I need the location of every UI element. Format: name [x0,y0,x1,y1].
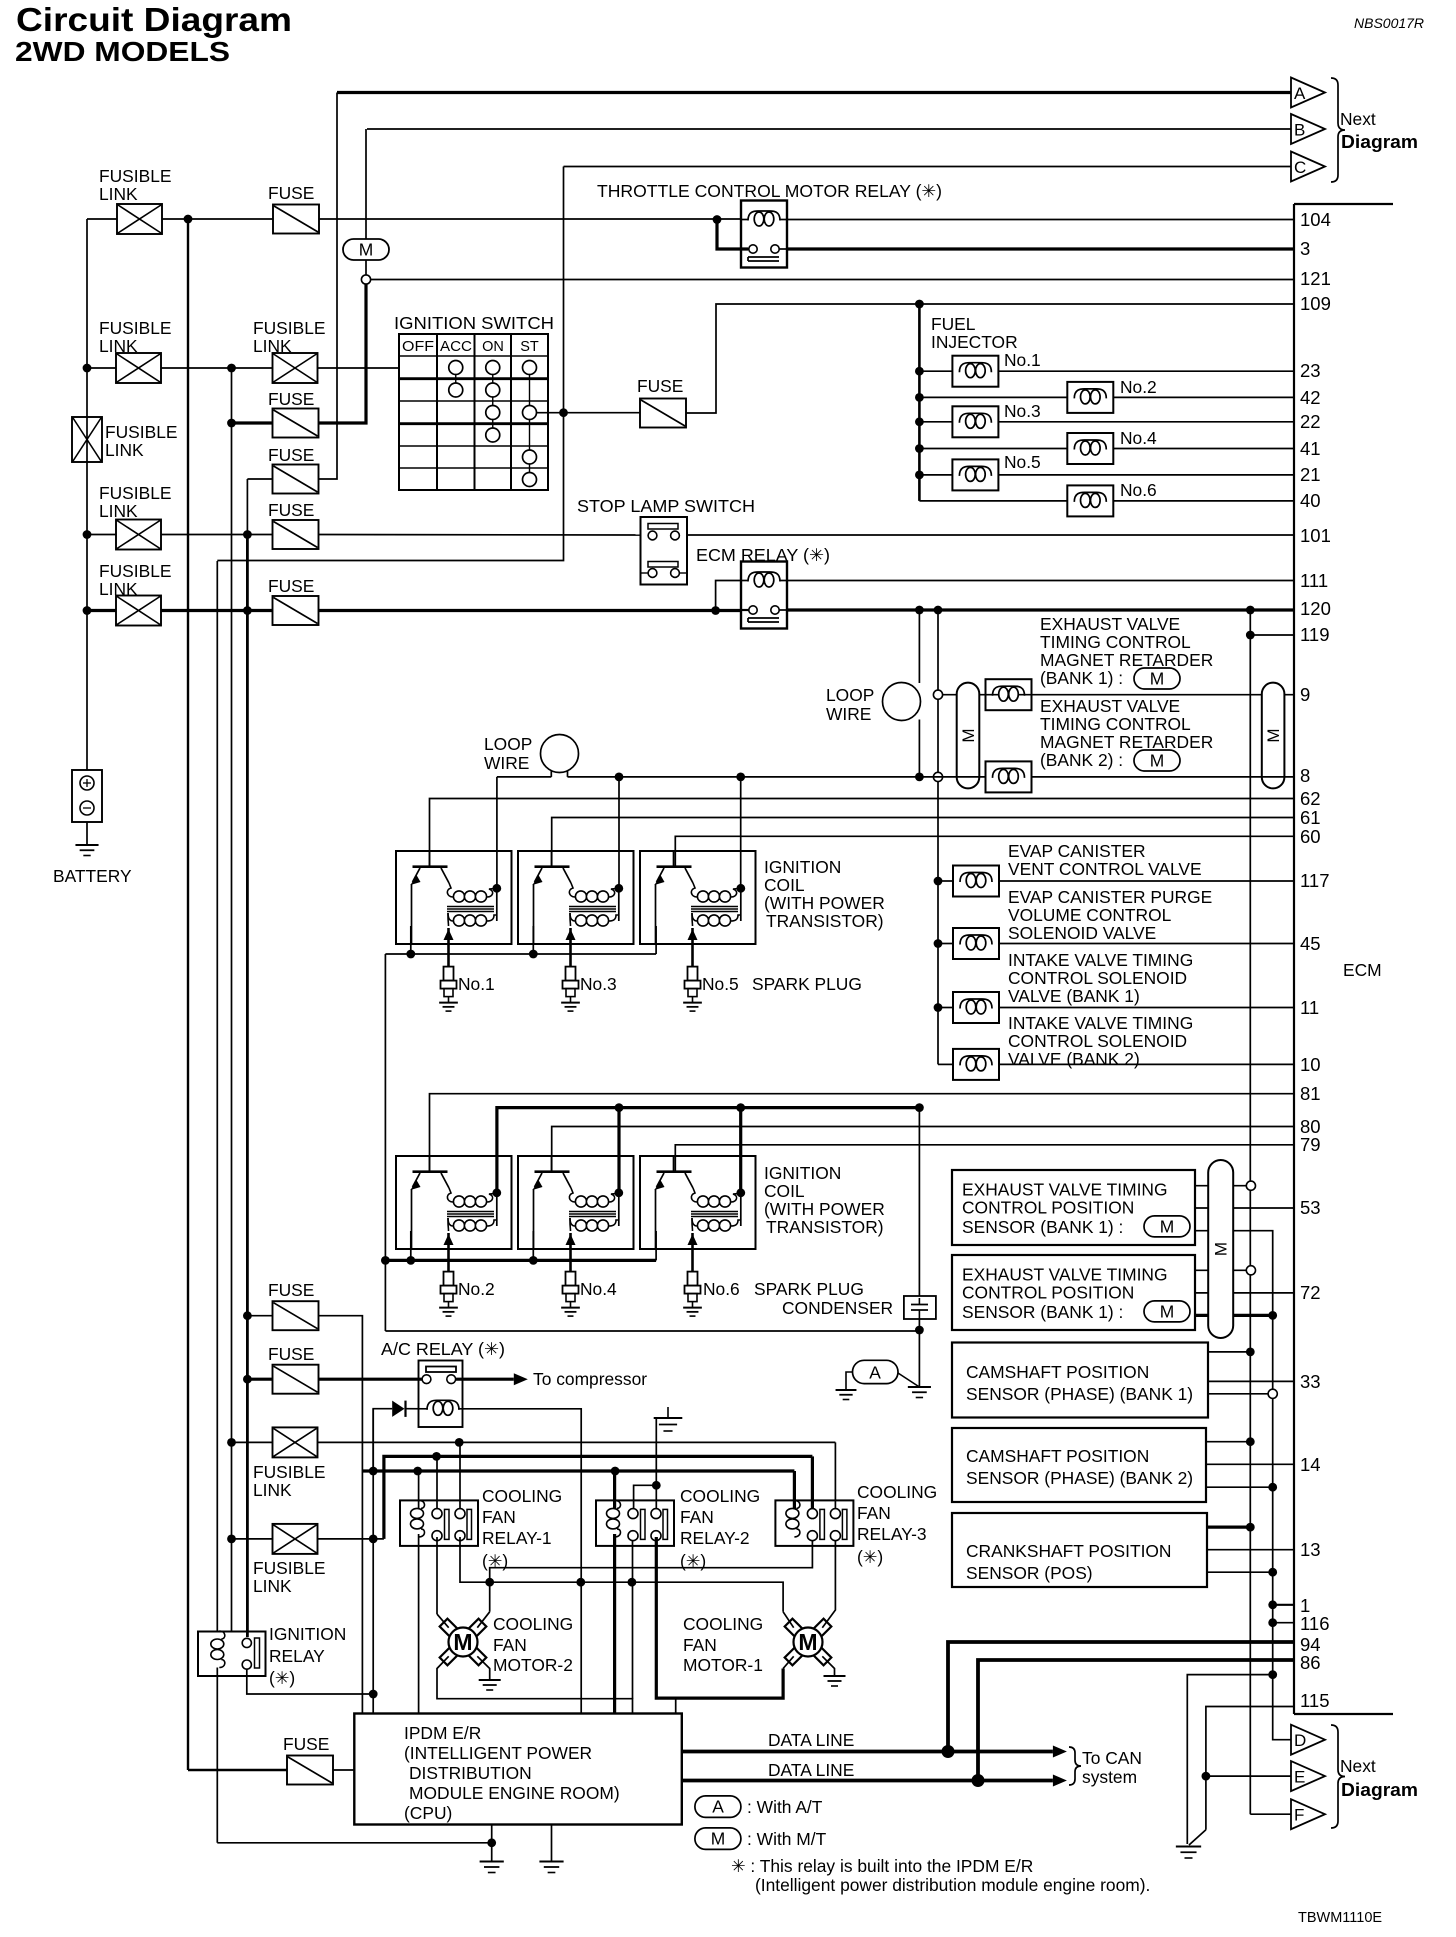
junction dot F6 feed [243,1311,252,1320]
svg-text:A/C RELAY (✳): A/C RELAY (✳) [381,1339,505,1359]
EVAP purge coil [953,928,999,959]
sensor1 connector circle [1246,1181,1255,1190]
wire line B to next diagram [367,128,1291,130]
sensor2 connector circle [1246,1266,1255,1275]
svg-text:LOOP: LOOP [484,734,532,754]
emitter return wire bank2 [385,1330,919,1332]
svg-text:FUSIBLE: FUSIBLE [99,483,171,503]
sensor2 stub 1 [1195,1269,1251,1271]
svg-text:111: 111 [1300,570,1328,591]
svg-text:No.3: No.3 [580,974,617,994]
emitter bus riser down [384,954,386,1331]
svg-text:TBWM1110E: TBWM1110E [1298,1910,1382,1926]
svg-text:EXHAUST VALVE: EXHAUST VALVE [1040,696,1180,716]
svg-text:FUSIBLE: FUSIBLE [253,1558,325,1578]
spark plug wires bank1 [447,928,450,967]
spark plug wires bank2 [447,1233,450,1272]
svg-text:To compressor: To compressor [533,1369,647,1389]
connector circle under motor [365,260,367,275]
svg-text:41: 41 [1300,438,1321,459]
svg-text:101: 101 [1300,525,1331,546]
svg-text:STOP LAMP SWITCH: STOP LAMP SWITCH [577,496,755,516]
wire ignition fuse to pin 109 riser [686,304,1294,413]
legend M/T oval [695,1828,741,1850]
svg-text:No.6: No.6 [1120,480,1157,500]
emitter verticals bank1 [410,926,412,954]
exhaust position sensor bank1 box [952,1170,1195,1245]
svg-text:(✳): (✳) [857,1547,883,1567]
fuse F2 [273,409,319,438]
svg-text:FUSE: FUSE [637,376,683,396]
relay3 left to motor2 row D [490,1541,813,1612]
junction dot ground branch [1268,1670,1277,1679]
relay2 contact step [634,1485,657,1509]
svg-text:EXHAUST VALVE: EXHAUST VALVE [1040,614,1180,634]
ignition switch contacts [449,361,463,375]
junction dot sensor2 return [1268,1311,1277,1320]
svg-text:INTAKE VALVE TIMING: INTAKE VALVE TIMING [1008,1013,1193,1033]
intake valve coil bank1 [953,992,999,1023]
emitter verticals bank2 [410,1231,412,1260]
battery feed vertical [86,219,88,770]
camshaft1 stub 3 [1208,1393,1273,1395]
wire x247 to F6 [247,1315,272,1317]
svg-text:F: F [1294,1806,1304,1825]
IPDM E/R box [354,1714,682,1825]
svg-text:No.6: No.6 [703,1279,740,1299]
svg-text:IGNITION SWITCH: IGNITION SWITCH [394,313,554,333]
wire pin 10 intake valve bank2 [938,1063,953,1065]
spark plug No.1 [444,967,454,981]
svg-text:11: 11 [1300,997,1319,1018]
svg-text:3: 3 [1300,238,1310,259]
wire pin 116 [1273,1622,1294,1624]
junction dots pin120 row [915,606,924,615]
svg-text:IGNITION: IGNITION [764,857,841,877]
svg-text:IPDM E/R: IPDM E/R [404,1723,481,1743]
data line 1 bold [682,1750,1053,1754]
svg-text:CONTROL POSITION: CONTROL POSITION [962,1198,1134,1218]
svg-text:2WD MODELS: 2WD MODELS [15,36,230,67]
wire contact to compressor [456,1378,514,1381]
svg-text:SPARK PLUG: SPARK PLUG [754,1279,864,1299]
exhaust position sensor bank2 box [952,1255,1195,1330]
wire pin 79 [675,1145,1294,1171]
svg-text:FAN: FAN [680,1507,714,1527]
svg-text:FUSE: FUSE [268,1280,314,1300]
svg-text:LINK: LINK [99,501,138,521]
svg-text:Next: Next [1340,1756,1376,1776]
svg-text:: With A/T: : With A/T [747,1797,823,1817]
svg-text:LINK: LINK [99,184,138,204]
relay2 coil feed bold [613,1471,616,1509]
svg-text:SOLENOID VALVE: SOLENOID VALVE [1008,923,1156,943]
fuel injector No.6 wire [919,500,1067,502]
loop wire on ECM relay feed [918,610,920,683]
junction dot battery FL2 [83,364,92,373]
svg-text:No.1: No.1 [458,974,495,994]
svg-text:No.4: No.4 [1120,428,1157,448]
junction dot emitter return [915,1326,924,1335]
wire pin 60 [675,836,1294,866]
svg-text:ON: ON [482,339,504,355]
svg-text:M: M [1150,669,1165,689]
svg-text:SENSOR (PHASE) (BANK 1): SENSOR (PHASE) (BANK 1) [966,1384,1193,1404]
motor1 ground [824,1675,846,1677]
svg-text:10: 10 [1300,1054,1321,1075]
vertical x373 to IPDM [372,1409,374,1714]
wire F4 to stop lamp switch [319,534,642,537]
wire ECM relay coil to pin 111 [787,580,1294,582]
svg-text:FUSIBLE: FUSIBLE [253,1462,325,1482]
fusible link FL2b [273,353,318,383]
cooling fan relay-3 [775,1500,853,1546]
svg-text:ST: ST [520,339,539,355]
svg-text:: With M/T: : With M/T [747,1829,827,1849]
junction dot ST column [559,408,568,417]
branch to ECM relay coil [716,581,741,611]
camshaft position sensor bank1 box [952,1343,1208,1418]
svg-text:BATTERY: BATTERY [53,866,132,886]
intake valve coil bank2 [953,1049,999,1080]
svg-text:COIL: COIL [764,1181,805,1201]
svg-text:104: 104 [1300,209,1331,230]
wire x231 to F2 [232,421,273,424]
svg-text:EXHAUST VALVE TIMING: EXHAUST VALVE TIMING [962,1180,1168,1200]
svg-text:FAN: FAN [493,1635,527,1655]
wire pin 9 retarder bank1 [942,694,1294,696]
fusible link FL1 [117,204,162,234]
relay2 coil to IPDM bold [613,1534,616,1714]
battery [72,770,102,822]
ECM ground [1176,1846,1201,1848]
fusible link FL7 [227,1535,236,1544]
svg-text:NBS0017R: NBS0017R [1354,15,1424,31]
svg-text:13: 13 [1300,1539,1321,1560]
wire motor to ECM pin 121 [371,279,1294,281]
wire pin 117 evap vent [934,877,943,886]
svg-text:53: 53 [1300,1197,1321,1218]
svg-text:Diagram: Diagram [1341,1780,1418,1800]
relay1 coil to IPDM [418,1534,420,1714]
svg-text:RELAY-2: RELAY-2 [680,1528,750,1548]
svg-text:No.3: No.3 [1004,401,1041,421]
svg-text:Diagram: Diagram [1341,132,1418,152]
crankshaft stub pin 13 [1207,1549,1294,1551]
IPDM ground row [217,1842,491,1844]
wire relay coil to pin 104 [787,219,1294,221]
fuel injector No.3 coil [952,406,998,437]
svg-text:MAGNET RETARDER: MAGNET RETARDER [1040,732,1213,752]
wire pin 94 bold [948,1642,1294,1752]
cooling fan relay-1 [400,1500,478,1546]
relay2 contact line to motor1 SW [656,1537,783,1698]
svg-text:CONDENSER: CONDENSER [782,1298,893,1318]
long vertical x188 [187,219,189,1770]
relay1 right to motor1 row E [460,1537,783,1612]
svg-text:FUSIBLE: FUSIBLE [99,166,171,186]
svg-text:FUSIBLE: FUSIBLE [253,318,325,338]
svg-text:FAN: FAN [857,1503,891,1523]
diode feed from row C [373,1409,392,1471]
ECM connector bus line [1293,204,1295,1714]
ignition coil box 4 [396,1156,512,1249]
relay row B bold [384,1456,813,1539]
fuse F7 [273,1365,319,1394]
slant to ground [1189,1830,1206,1845]
wire battery to FL2 [87,367,116,369]
svg-text:MAGNET RETARDER: MAGNET RETARDER [1040,650,1213,670]
relay row A [318,1441,836,1443]
wire F1 to throttle relay [319,218,741,220]
svg-text:79: 79 [1300,1134,1321,1155]
svg-text:Next: Next [1340,109,1376,129]
wire ECM relay contact to pin 120 bold [787,608,1294,611]
junction dot F5 x247 [243,606,252,615]
ignition fuse [640,399,686,428]
svg-text:DATA LINE: DATA LINE [768,1760,854,1780]
svg-text:LINK: LINK [253,1576,292,1596]
wire pin 8 row with loop wire [497,776,551,778]
primary bus bank2 bold [497,1108,920,1193]
svg-text:SENSOR (BANK 1) :: SENSOR (BANK 1) : [962,1302,1123,1322]
wire pin 115 [1206,1707,1294,1830]
svg-text:E: E [1294,1768,1305,1787]
long vertical x231 [231,368,233,1632]
wire pin 11 intake valve bank1 [934,1003,943,1012]
ignition relay coil exit [216,1668,218,1843]
ECM relay [741,562,787,629]
svg-text:116: 116 [1300,1613,1330,1634]
svg-text:FAN: FAN [683,1635,717,1655]
ground branch wire [1187,1675,1272,1844]
retarder capsule right [1262,683,1285,789]
A/C relay coil [427,1400,459,1410]
fuel injector No.1 wire [915,367,924,376]
svg-text:ECM: ECM [1343,960,1382,980]
svg-text:VALVE (BANK 2): VALVE (BANK 2) [1008,1049,1140,1069]
svg-text:EVAP CANISTER: EVAP CANISTER [1008,841,1146,861]
junction dot battery FL5 [83,606,92,615]
long vertical x217 ignition relay feed [216,561,218,1632]
throttle control motor relay [741,201,787,268]
ground above relay 2 [667,1407,669,1418]
svg-text:FUSIBLE: FUSIBLE [99,561,171,581]
svg-text:✳ : This relay is built into t: ✳ : This relay is built into the IPDM E/… [731,1856,1033,1876]
junction dot injector feed [915,300,924,309]
ignition relay contact wire [247,1669,373,1694]
wire stop lamp switch to pin 101 [687,534,1294,536]
svg-text:(WITH POWER: (WITH POWER [764,1199,885,1219]
stop lamp switch [641,517,688,585]
svg-text:CAMSHAFT POSITION: CAMSHAFT POSITION [966,1446,1149,1466]
relay2 left contact down [632,1541,634,1699]
svg-text:FUSIBLE: FUSIBLE [105,422,177,442]
sensor1 stub pin 53 [1195,1207,1294,1209]
wire FL4 to F4 [161,534,273,536]
camshaft1 stub pin 33 [1208,1380,1294,1382]
connector circle wire9 [933,690,942,699]
svg-text:FUSE: FUSE [283,1734,329,1754]
spark plug No.2 [444,1272,454,1286]
ignition coil box 1 [396,851,512,944]
relay3 right contact feed [834,1442,836,1509]
camshaft2 stub pin 14 [1206,1463,1294,1465]
fuse F3 [273,465,319,494]
wire battery to FL5 [87,609,116,612]
spark plug No.3 [566,967,576,981]
relay2 right contact from ground [655,1485,657,1509]
svg-text:117: 117 [1300,870,1330,891]
junction dot F7 feed [243,1375,252,1384]
svg-text:TRANSISTOR): TRANSISTOR) [766,911,884,931]
emitter bus bank1 [385,953,656,955]
vertical x938 retarder and valve feed [937,610,939,1064]
relay3 coil feed bold [793,1471,796,1509]
ignition coil 4 primary dot [492,1188,501,1197]
wire x247 to F3 [247,478,272,480]
fuel injector No.4 wire [915,444,924,453]
svg-text:M: M [1160,1216,1175,1236]
emitter bus bank2 bold [385,1259,656,1262]
svg-text:FUEL: FUEL [931,314,976,334]
svg-text:CAMSHAFT POSITION: CAMSHAFT POSITION [966,1362,1149,1382]
svg-text:M: M [959,728,978,742]
wire ST to ignition fuse [564,412,641,414]
A/C relay box [419,1361,463,1428]
junction dot ECM relay coil branch [711,606,720,615]
wire to arrow F [1250,1813,1291,1815]
wire FL2b to ignition switch [318,367,401,369]
svg-text:109: 109 [1300,293,1331,314]
branch into IPDM [675,1698,677,1713]
arrow E [1291,1761,1325,1791]
svg-text:(INTELLIGENT POWER: (INTELLIGENT POWER [404,1743,592,1763]
spark plug No.5 [688,967,698,981]
svg-text:COOLING: COOLING [482,1486,562,1506]
ECM box top edge [1294,203,1393,205]
svg-text:MOTOR-1: MOTOR-1 [683,1655,763,1675]
svg-text:86: 86 [1300,1652,1321,1673]
fusible link FL4 [116,520,161,550]
svg-text:121: 121 [1300,268,1331,289]
arrow B [1291,114,1325,144]
crankshaft stub 3 [1207,1571,1273,1573]
svg-text:(WITH POWER: (WITH POWER [764,893,885,913]
svg-text:INJECTOR: INJECTOR [931,332,1018,352]
fusible link FL6 [227,1438,236,1447]
svg-text:120: 120 [1300,598,1331,619]
junction dots wire8 row [615,773,624,782]
wire F7 to AC relay bold [319,1378,427,1381]
ignition coil 3 primary dot [736,884,745,893]
vertical x1250 sensor return [1249,610,1251,1814]
svg-text:RELAY: RELAY [269,1646,325,1666]
exhaust retarder coil bank1 [986,679,1032,710]
camshaft2 stub 3 [1206,1486,1273,1488]
svg-text:A: A [712,1797,724,1817]
svg-text:(CPU): (CPU) [404,1803,452,1823]
ignition coil 6 primary dot [736,1188,745,1197]
wire condenser to ground [918,1319,920,1387]
svg-text:61: 61 [1300,807,1321,828]
sensor1 stub 3 [1195,1231,1291,1740]
svg-text:A: A [869,1363,881,1383]
svg-text:VENT CONTROL VALVE: VENT CONTROL VALVE [1008,859,1202,879]
motor2 ground [479,1679,501,1681]
A/T oval connector [853,1360,899,1383]
svg-text:FUSE: FUSE [268,500,314,520]
svg-text:21: 21 [1300,464,1321,485]
cooling fan motor-1 [813,1647,831,1665]
wire FL5 to F5 bold [161,609,273,612]
svg-text:81: 81 [1300,1083,1321,1104]
motor1 arm wires [783,1612,794,1628]
fuse F5 [273,596,319,625]
riser B-line to throttle motor [365,129,367,239]
riser F3-F4 [246,479,248,535]
svg-text:23: 23 [1300,360,1321,381]
brace next diagram top [1331,78,1345,182]
fuel injector No.1 coil [952,356,998,387]
motor2 arm wires [437,1614,449,1628]
wire battery to FL1 [87,218,117,220]
svg-text:LOOP: LOOP [826,685,874,705]
svg-text:MOTOR-2: MOTOR-2 [493,1655,573,1675]
wire pin 119 [1250,634,1294,636]
svg-text:115: 115 [1300,1690,1330,1711]
svg-text:To CAN: To CAN [1082,1748,1142,1768]
svg-text:SENSOR (POS): SENSOR (POS) [966,1563,1093,1583]
camshaft2 stub 1 [1206,1441,1250,1443]
arrow C [1291,152,1325,182]
coil2 primary riser [618,777,620,888]
svg-text:B: B [1294,121,1305,140]
fuel injector No.4 coil [1067,433,1113,464]
svg-text:TRANSISTOR): TRANSISTOR) [766,1217,884,1237]
fusible link FL3 vertical [72,417,102,462]
wire diode to AC coil [406,1408,429,1410]
wire pin 45 evap purge [934,939,943,948]
svg-text:M: M [1150,751,1165,771]
wire F5 to ECM relay bold [319,609,742,612]
svg-text:M: M [798,1629,817,1655]
A/T oval left hook to ground [846,1372,853,1390]
relay1 left contact feed [436,1456,438,1509]
junction dot F2 x231 [227,419,236,428]
svg-text:M: M [1160,1301,1175,1321]
svg-text:No.4: No.4 [580,1279,617,1299]
svg-text:ACC: ACC [440,339,472,355]
ignition switch riser x563 [563,167,565,414]
svg-text:(✳): (✳) [269,1668,295,1688]
svg-text:IGNITION: IGNITION [764,1163,841,1183]
svg-text:FAN: FAN [482,1507,516,1527]
svg-text:119: 119 [1300,624,1330,645]
svg-text:40: 40 [1300,490,1321,511]
crankshaft stub 1 bold [1207,1525,1250,1528]
wire FL7 output [318,1538,384,1540]
svg-text:FUSE: FUSE [268,183,314,203]
svg-text:M: M [711,1829,726,1849]
svg-text:EXHAUST VALVE TIMING: EXHAUST VALVE TIMING [962,1265,1168,1285]
coil1 primary riser [496,777,498,888]
wire pin 61 [552,818,1294,867]
ECM box bottom edge [1294,1713,1393,1715]
arrow D [1291,1725,1325,1755]
camshaft position sensor bank2 box [952,1428,1206,1502]
camshaft1 stub 1 [1208,1351,1250,1353]
